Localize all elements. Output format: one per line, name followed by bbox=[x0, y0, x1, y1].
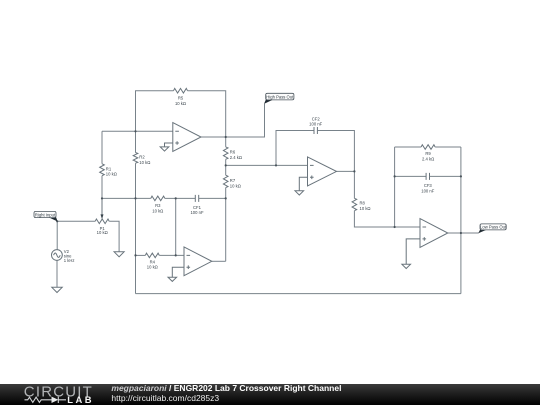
resistor R8 bbox=[352, 198, 357, 210]
junction node op1 minus / R2 bbox=[134, 130, 136, 132]
wire CF1 right bbox=[199, 197, 226, 199]
resistor R2 bbox=[133, 153, 138, 164]
svg-text:CF1: CF1 bbox=[193, 205, 202, 210]
wire R7 bottom vertical bbox=[225, 188, 227, 262]
wire P1 right to ground bbox=[109, 221, 119, 252]
junction node R4 left bbox=[134, 254, 136, 256]
resistor R6 bbox=[223, 147, 228, 159]
junction node op1 output bbox=[225, 136, 227, 138]
footer bar bbox=[0, 384, 540, 405]
svg-text:High Pass Out: High Pass Out bbox=[266, 94, 294, 99]
svg-text:LAB: LAB bbox=[67, 394, 94, 405]
svg-text:Low Pass Out: Low Pass Out bbox=[480, 225, 507, 230]
svg-text:10 kΩ: 10 kΩ bbox=[106, 172, 117, 177]
wire R4 left bbox=[136, 254, 146, 256]
wire top feedback left vertical bbox=[136, 91, 174, 132]
svg-text:R1: R1 bbox=[106, 166, 112, 171]
wire R9 right bbox=[435, 146, 461, 148]
junction node CF2 left bbox=[275, 164, 277, 166]
svg-text:2.4 kΩ: 2.4 kΩ bbox=[422, 157, 434, 162]
svg-text:2.4 kΩ: 2.4 kΩ bbox=[230, 155, 242, 160]
wire R8 bottom to op4 bbox=[354, 211, 420, 227]
junction node op4 minus bbox=[394, 226, 396, 228]
wire R1 bottom bbox=[101, 176, 103, 199]
wire feedback left vertical op4 bbox=[394, 147, 396, 227]
wire input down to V2 bbox=[56, 221, 58, 249]
svg-text:10 kΩ: 10 kΩ bbox=[147, 265, 158, 270]
svg-text:10 kΩ: 10 kΩ bbox=[175, 101, 186, 106]
capacitor CF1 bbox=[195, 195, 198, 202]
wire op2 output bbox=[212, 260, 226, 262]
svg-text:100 nF: 100 nF bbox=[190, 210, 203, 215]
op-amp OA2 bbox=[184, 247, 212, 276]
wire op3 output bbox=[337, 170, 355, 172]
wire R9 top left bbox=[395, 146, 422, 148]
svg-text:10 kΩ: 10 kΩ bbox=[139, 160, 150, 165]
wire CF3 right bbox=[430, 175, 461, 177]
wire bottom return bbox=[136, 293, 461, 295]
ground op-amp OA4 bbox=[402, 239, 420, 269]
junction node R3 CF1 bbox=[175, 197, 177, 199]
junction node CF1 right bbox=[225, 197, 227, 199]
wire R1 branch top bbox=[101, 131, 103, 164]
ground op-amp OA1 bbox=[160, 143, 173, 151]
svg-text:100 nF: 100 nF bbox=[421, 188, 434, 193]
P1 wiper arrowhead bbox=[101, 214, 104, 219]
wire node row y198 left bbox=[102, 197, 151, 199]
wire CF2 right bbox=[317, 131, 354, 172]
wire bp row to op3 bbox=[226, 164, 308, 166]
wire op1 minus input bbox=[102, 130, 173, 132]
wire CF2 loop bbox=[276, 131, 314, 166]
svg-text:R4: R4 bbox=[150, 259, 156, 264]
wire vertical x175 bbox=[175, 198, 177, 255]
wire R3 to CF1 bbox=[165, 197, 196, 199]
ground op-amp OA2 bbox=[168, 267, 184, 281]
CircuitLab logo bbox=[0, 384, 110, 405]
wire R2 bottom long vertical bbox=[135, 163, 137, 293]
junction node op3 output bbox=[353, 170, 355, 172]
wire P1 wiper stem bbox=[101, 198, 103, 214]
svg-text:1 kHz: 1 kHz bbox=[64, 258, 75, 263]
flag Low Pass Out bbox=[478, 224, 507, 233]
svg-text:R6: R6 bbox=[230, 150, 236, 155]
svg-text:R7: R7 bbox=[230, 178, 236, 183]
junction node R4 right op2 minus bbox=[175, 254, 177, 256]
op-amp OA3 bbox=[308, 157, 337, 186]
wire op4 output bbox=[448, 232, 479, 234]
svg-text:10 kΩ: 10 kΩ bbox=[97, 230, 108, 235]
voltage source V2 bbox=[52, 250, 63, 261]
junction node R2 line y198 bbox=[134, 197, 136, 199]
resistor R7 bbox=[223, 175, 228, 187]
junction node CF3 left bbox=[394, 175, 396, 177]
junction node CF3 right bbox=[460, 175, 462, 177]
wire op3 out down to R8 bbox=[353, 171, 355, 198]
svg-text:Right Input: Right Input bbox=[35, 212, 56, 217]
capacitor CF2 bbox=[314, 127, 317, 134]
ground op-amp OA3 bbox=[295, 177, 308, 195]
potentiometer P1 bbox=[95, 219, 109, 224]
junction node input bbox=[56, 220, 58, 222]
svg-text:10 kΩ: 10 kΩ bbox=[230, 183, 241, 188]
wire right vertical lowpass bbox=[460, 147, 462, 294]
svg-text:10 kΩ: 10 kΩ bbox=[152, 209, 163, 214]
flag High Pass Out bbox=[264, 93, 294, 104]
svg-text:R9: R9 bbox=[425, 151, 431, 156]
wire R6 to junction bbox=[225, 159, 227, 175]
wire input to P1 bbox=[57, 220, 95, 222]
wire op1 out to R6 bbox=[225, 137, 227, 147]
svg-text:R8: R8 bbox=[360, 201, 366, 206]
resistor R5 bbox=[174, 88, 188, 93]
svg-text:R3: R3 bbox=[155, 203, 161, 208]
resistor R1 bbox=[100, 164, 105, 176]
wire op1 output bbox=[201, 104, 265, 137]
wire top feedback right bbox=[188, 91, 226, 137]
capacitor CF3 bbox=[426, 173, 429, 180]
svg-text:CF3: CF3 bbox=[424, 183, 433, 188]
ground V2 bbox=[52, 287, 62, 292]
svg-text:R5: R5 bbox=[178, 96, 184, 101]
junction node op4 output bbox=[460, 232, 462, 234]
ground P1 bbox=[114, 252, 124, 257]
junction node R6 R7 bbox=[225, 164, 227, 166]
resistor R4 bbox=[145, 253, 159, 258]
flag Right Input bbox=[34, 211, 58, 221]
wire V2 bottom to ground bbox=[56, 260, 58, 287]
op-amp OA1 bbox=[173, 123, 201, 152]
svg-text:R2: R2 bbox=[139, 155, 145, 160]
wire R2 branch top bbox=[135, 131, 137, 152]
op-amp OA4 bbox=[420, 219, 448, 248]
junction node R1 bottom wiper bbox=[101, 197, 103, 199]
footer text bbox=[111, 384, 341, 393]
resistor R3 bbox=[151, 196, 165, 201]
wire CF3 left bbox=[395, 175, 427, 177]
wire R4 right to op2 bbox=[159, 254, 184, 256]
resistor R9 bbox=[421, 145, 435, 150]
svg-text:100 nF: 100 nF bbox=[309, 121, 322, 126]
svg-text:10 kΩ: 10 kΩ bbox=[360, 206, 371, 211]
